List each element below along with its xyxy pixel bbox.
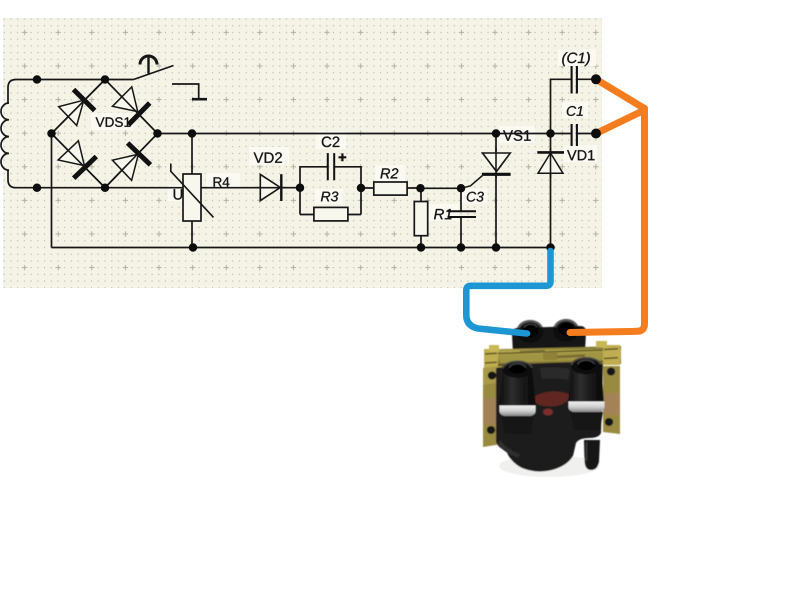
wire top rail y=79.5 (16, 79, 134, 81)
coil right HT tower collar (569, 402, 605, 414)
coil small red dot (543, 409, 553, 416)
label (C1) (562, 52, 590, 66)
blue wire to coil (466, 251, 550, 334)
label background boxes (91, 49, 597, 221)
diode VD2 (260, 174, 281, 201)
diode VD1 (537, 152, 564, 173)
bridge diode VDS1-4 bottom-right (112, 143, 150, 180)
label VD2 (254, 152, 282, 163)
rail stub under blue wire (550, 248, 552, 259)
label R1 (434, 209, 451, 219)
VD1 leads (550, 134, 552, 248)
breaker cam cap (140, 56, 157, 65)
coil terminal base block (512, 326, 586, 354)
R4 top lead (191, 134, 193, 175)
R1 leads (420, 188, 422, 247)
VS1 cathode lead (495, 175, 497, 248)
coil body upper sheen (540, 367, 570, 380)
thyristor VS1 (482, 153, 511, 174)
resistor R1 body (414, 202, 427, 236)
C3 leads (460, 188, 462, 247)
bottom rail (52, 247, 551, 249)
wire node to node (421, 187, 462, 189)
coil center red patch (535, 391, 569, 406)
bridge diode VDS1-3 bottom-left (58, 141, 96, 178)
coil left tower below collar (501, 416, 534, 434)
terminal dot lower (591, 129, 601, 139)
label C2 (322, 137, 340, 148)
R2 leads (361, 187, 421, 189)
bridge diode VDS1-1 top-left (59, 90, 95, 126)
coil left side bracket (483, 366, 502, 447)
label R3 (321, 192, 338, 202)
ground bar (192, 98, 207, 101)
capacitor C2 plates (328, 153, 334, 180)
breaker cam stem (147, 57, 149, 74)
orange wire upper branch (596, 79, 645, 108)
junction dots (33, 75, 555, 252)
label C3 (467, 192, 484, 202)
coil left HT tower body (499, 368, 536, 407)
wire overdraw through diode bodies (52, 80, 551, 188)
VS1 anode lead (495, 134, 497, 153)
coil bottom nub (584, 440, 600, 470)
wire left vertex down to bottom rail (51, 134, 53, 248)
label R2 (380, 168, 398, 178)
label U (174, 189, 183, 199)
R4 bottom lead (191, 221, 193, 248)
terminal dot upper (591, 74, 601, 84)
capacitor C1 lower plates (572, 124, 577, 146)
breaker switch arm (134, 66, 174, 80)
coil body lower-left highlight (498, 440, 520, 458)
wire bottom y=187.7 (16, 187, 261, 189)
bridge diamond wires (52, 80, 158, 188)
label VDS1 (96, 117, 131, 127)
C1 upper link wire (551, 79, 597, 133)
label R4 (214, 177, 230, 186)
coil brass top plate (484, 346, 621, 368)
coil right LT terminal (553, 319, 579, 342)
label C1 (567, 106, 583, 116)
resistor R2 body (374, 182, 407, 195)
label VS1 (503, 130, 530, 141)
capacitor (C1) upper plates (572, 66, 577, 94)
coil right side bracket (603, 366, 620, 434)
label VD1 (567, 150, 594, 160)
resistor R3 body (314, 207, 348, 221)
VS1 gate wire (461, 176, 483, 189)
coil right HT tower body (568, 364, 604, 403)
C2 polarity plus (339, 153, 347, 161)
orange wire vertical run to coil (570, 109, 645, 333)
VD2 leads (282, 187, 301, 189)
ignition coil photo (483, 319, 621, 477)
plate right end details (603, 345, 620, 365)
bridge diode VDS1-2 top-right (113, 87, 150, 125)
schematic grid background panel (3, 18, 602, 288)
capacitor C3 plates (448, 211, 477, 217)
coil right tower below collar (570, 412, 603, 430)
magneto coil winding left edge (8, 80, 16, 104)
varistor R4 diagonal (171, 164, 214, 218)
plate left end details (484, 349, 498, 369)
varistor R4 body (183, 174, 201, 221)
coil main black body (496, 363, 603, 472)
C2 R3 parallel block frame (300, 167, 361, 215)
coil left LT terminal (517, 320, 544, 343)
coil ground shadow (499, 455, 599, 477)
orange wire lower branch (596, 110, 645, 134)
breaker fixed contact (172, 84, 199, 99)
coil left HT tower collar (500, 406, 536, 418)
coil right HT tower top (571, 358, 601, 375)
wire mid rail y=133.5 (158, 133, 572, 135)
coil left HT tower top (503, 361, 533, 378)
